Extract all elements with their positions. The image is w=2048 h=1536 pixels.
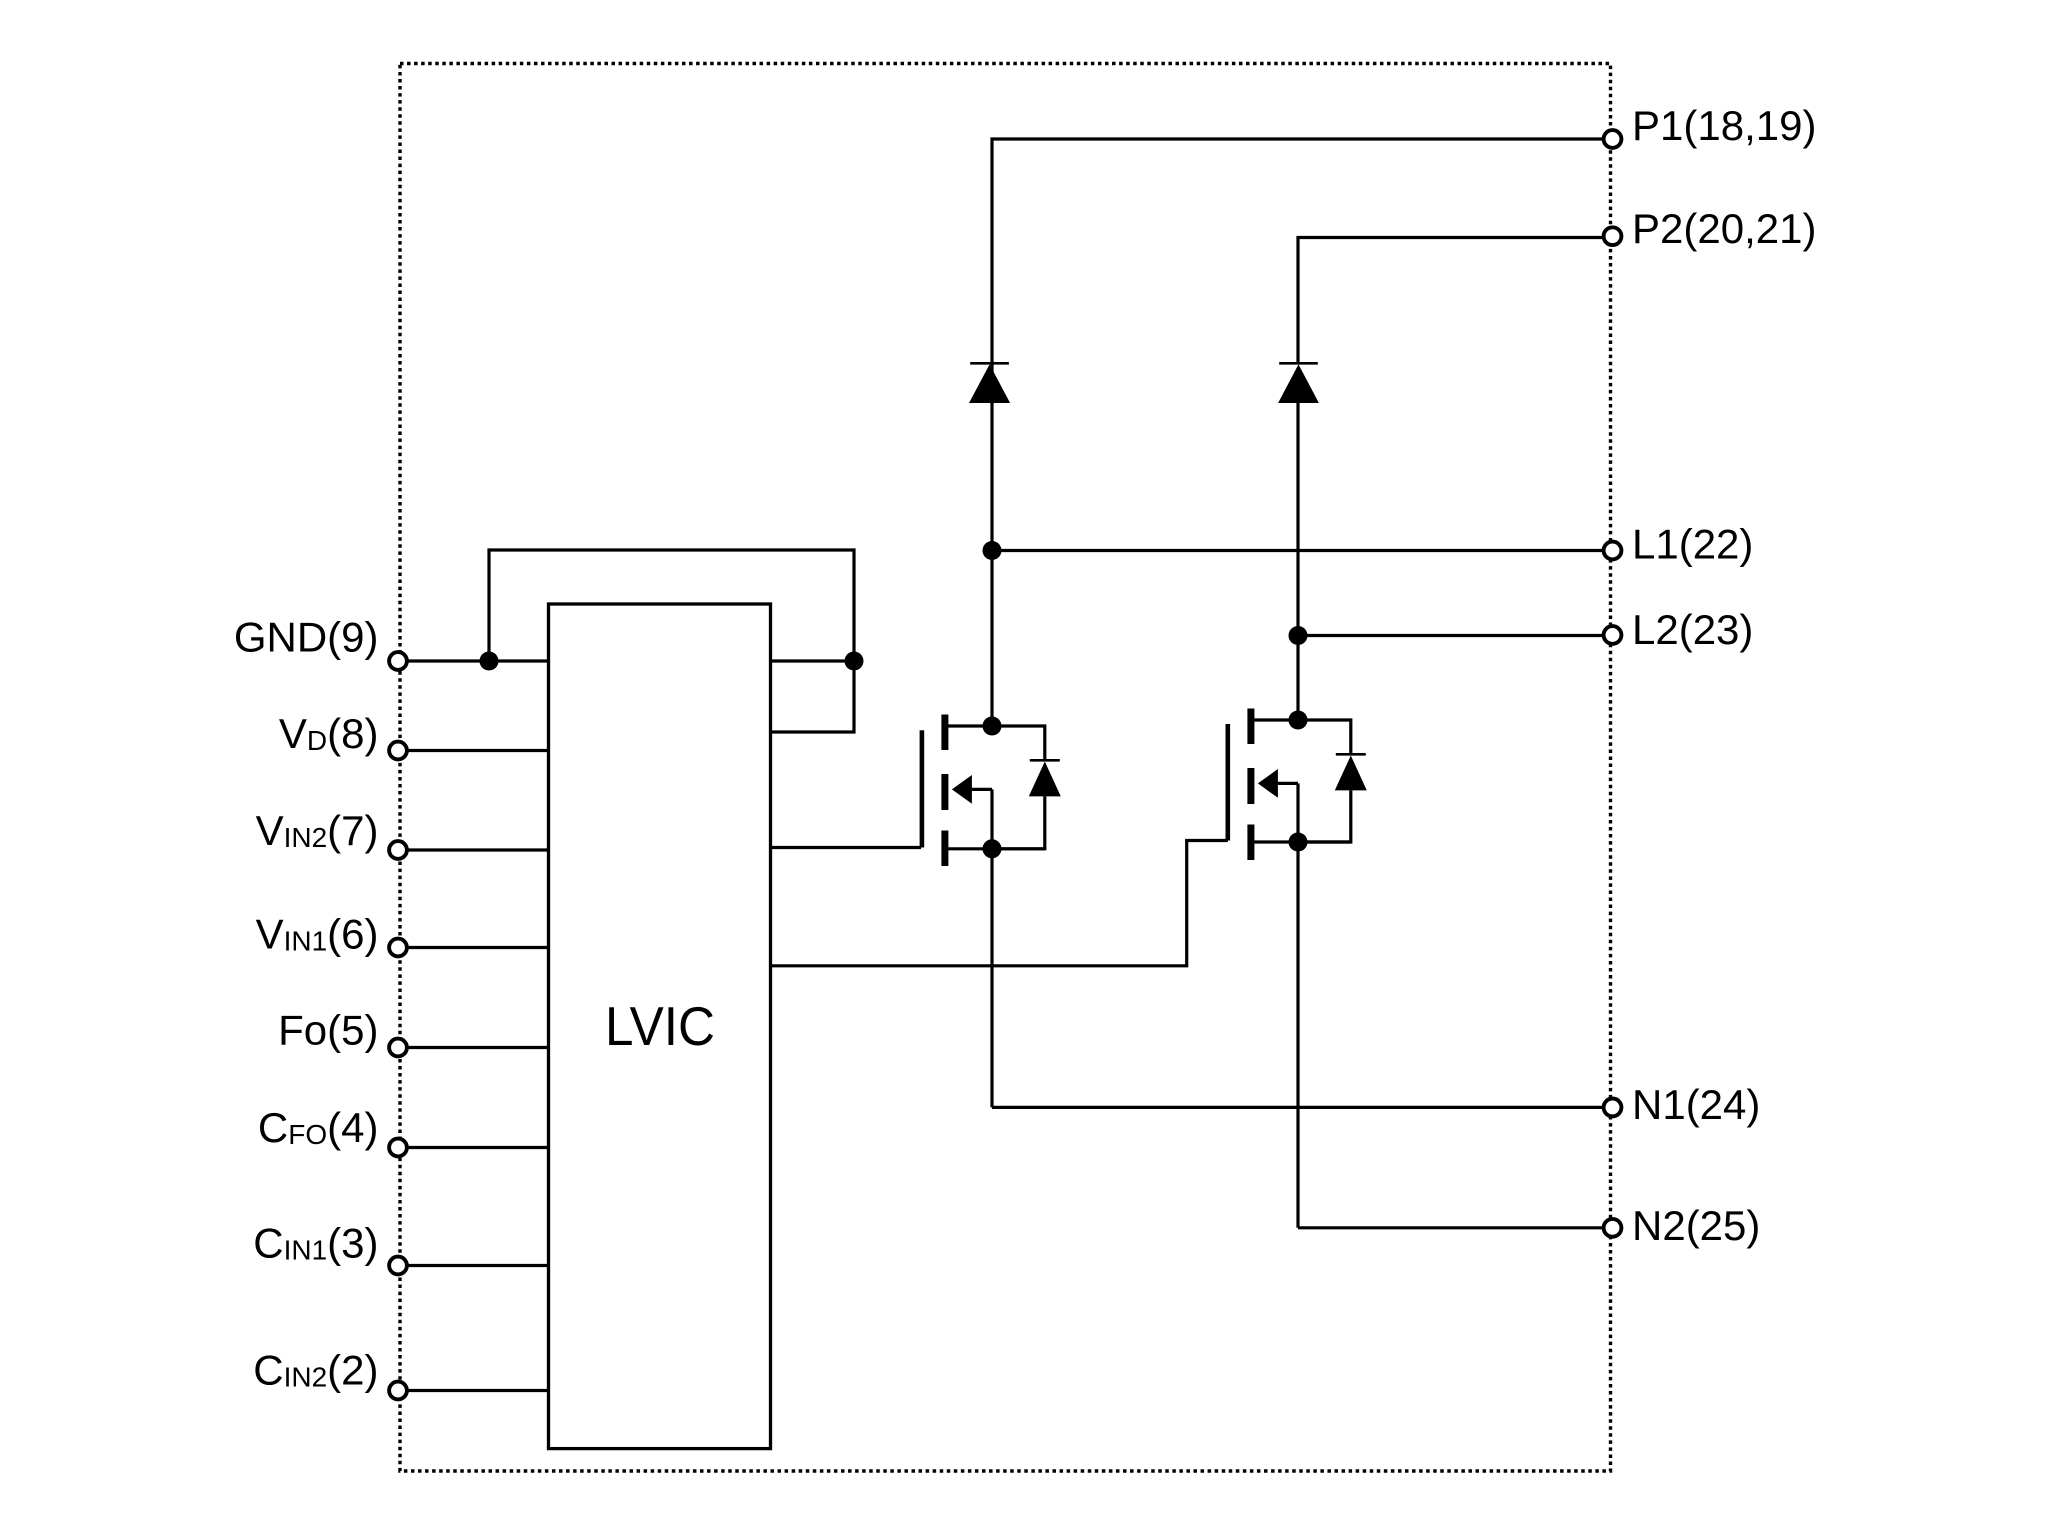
- MOSFET Q1 source junction dot: [983, 839, 1002, 858]
- MOSFET Q1 drain junction dot: [983, 717, 1002, 736]
- MOSFET Q2 source stub: [1254, 840, 1351, 843]
- svg-text:N2(25): N2(25): [1632, 1202, 1760, 1249]
- MOSFET Q2 body diode branch lower: [1298, 790, 1351, 842]
- junction dot loop / LVIC stub: [845, 652, 864, 671]
- pin circle P1(18,19): [1604, 130, 1622, 148]
- diode D1 triangle: [969, 364, 1010, 403]
- wire VIN2(7) to LVIC: [398, 848, 549, 851]
- MOSFET Q1 arrow tail vertical: [990, 789, 993, 848]
- wire VD(8) to LVIC: [398, 749, 549, 752]
- MOSFET Q1 source stub: [948, 847, 1045, 850]
- MOSFET Q1 channel segment (body): [941, 774, 948, 810]
- IC package boundary (dotted outline): [400, 64, 1611, 1472]
- LVIC block U1: [549, 604, 771, 1449]
- wire Fo(5) to LVIC: [398, 1046, 549, 1049]
- svg-text:L1(22): L1(22): [1632, 521, 1753, 568]
- MOSFET Q1 body diode branch lower: [992, 796, 1045, 848]
- wire CIN2(2) to LVIC: [398, 1389, 549, 1392]
- wire VIN1(6) to LVIC: [398, 946, 549, 949]
- MOSFET Q1 gate bar: [920, 730, 925, 847]
- wire leg 2: D2 to M2 drain: [1296, 403, 1299, 720]
- MOSFET Q2 drain stub: [1254, 718, 1298, 721]
- wire N2 to pin: [1298, 1226, 1612, 1229]
- svg-text:N1(24): N1(24): [1632, 1081, 1760, 1128]
- MOSFET Q2 body diode cathode bar: [1336, 753, 1366, 756]
- pin circle L2(23): [1604, 626, 1622, 644]
- svg-text:VD(8): VD(8): [279, 710, 379, 757]
- MOSFET Q1 body diode cathode bar: [1030, 759, 1060, 762]
- MOSFET Q2 body arrow shaft: [1276, 782, 1298, 785]
- MOSFET Q1 body arrow head: [952, 775, 972, 804]
- wire L1 to pin: [992, 549, 1612, 552]
- pin circle VIN1(6): [389, 939, 407, 957]
- svg-text:L2(23): L2(23): [1632, 606, 1753, 653]
- svg-text:P2(20,21): P2(20,21): [1632, 205, 1816, 252]
- MOSFET Q2 channel segment (source): [1247, 825, 1254, 861]
- svg-text:LVIC: LVIC: [605, 995, 715, 1057]
- pin circle VD(8): [389, 742, 407, 760]
- pin circle P2(20,21): [1604, 227, 1622, 245]
- wire GND loop: up from junction: [489, 550, 854, 732]
- pin circle CFO(4): [389, 1139, 407, 1157]
- wire CFO(4) to LVIC: [398, 1146, 549, 1149]
- MOSFET Q1 channel segment (source): [941, 831, 948, 867]
- pin circle VIN2(7): [389, 841, 407, 859]
- MOSFET Q2 gate routing wire from LVIC: [771, 841, 1228, 966]
- wire GND(9) to LVIC left edge: [398, 659, 549, 662]
- svg-text:Fo(5): Fo(5): [278, 1007, 378, 1054]
- diode D1 (leg 1 top) cathode bar: [970, 362, 1009, 365]
- diode D2 (leg 2 top) cathode bar: [1279, 362, 1318, 365]
- MOSFET Q2 arrow tail vertical: [1296, 783, 1299, 842]
- wire CIN1(3) to LVIC: [398, 1264, 549, 1267]
- MOSFET Q1 body diode triangle: [1029, 762, 1061, 797]
- svg-text:P1(18,19): P1(18,19): [1632, 102, 1816, 149]
- MOSFET Q2 channel segment (drain): [1247, 709, 1254, 745]
- pin circle GND(9): [389, 652, 407, 670]
- wire P1 rail: top of leg 1 to pin P1: [992, 139, 1612, 372]
- MOSFET Q2 gate bar: [1226, 724, 1231, 841]
- svg-text:GND(9): GND(9): [234, 614, 379, 661]
- pin circle N1(24): [1604, 1099, 1622, 1117]
- wire leg 2: M2 source down to N2 level: [1296, 842, 1299, 1228]
- MOSFET Q2 body diode branch upper: [1298, 720, 1351, 754]
- MOSFET Q2 body diode triangle: [1335, 756, 1367, 791]
- MOSFET Q2 body arrow head: [1258, 769, 1278, 798]
- MOSFET Q1 gate wire from LVIC: [771, 846, 922, 849]
- wire leg 1: D1 to M1 drain: [990, 403, 993, 726]
- MOSFET Q1 channel segment (drain): [941, 715, 948, 751]
- MOSFET Q1 drain stub: [948, 724, 992, 727]
- wire P2 rail: top of leg 2 to pin P2: [1298, 238, 1612, 364]
- pin circle CIN1(3): [389, 1257, 407, 1275]
- diode D2 triangle: [1278, 364, 1319, 403]
- wire N1 to pin: [992, 1106, 1612, 1109]
- MOSFET Q1 body diode branch upper: [992, 726, 1045, 760]
- MOSFET Q2 drain junction dot: [1289, 711, 1308, 730]
- junction dot L1 on leg 1: [983, 541, 1002, 560]
- MOSFET Q2 channel segment (body): [1247, 768, 1254, 804]
- junction dot GND wire / loop: [480, 652, 499, 671]
- pin circle L1(22): [1604, 542, 1622, 560]
- wire leg 1: M1 source down to N1 level: [990, 849, 993, 1108]
- junction dot L2 on leg 2: [1289, 626, 1308, 645]
- pin circle CIN2(2): [389, 1382, 407, 1400]
- wire LVIC right edge to loop at GND level: [771, 659, 855, 662]
- MOSFET Q1 body arrow shaft: [970, 788, 992, 791]
- MOSFET Q2 source junction dot: [1289, 833, 1308, 852]
- pin circle N2(25): [1604, 1219, 1622, 1237]
- pin circle Fo(5): [389, 1039, 407, 1057]
- wire L2 to pin: [1298, 634, 1612, 637]
